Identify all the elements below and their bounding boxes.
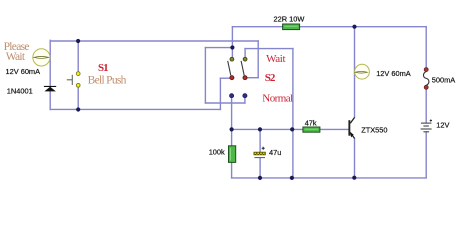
svg-text:47k: 47k	[305, 118, 317, 127]
svg-text:12V 60mA: 12V 60mA	[376, 69, 411, 78]
svg-text:Normal: Normal	[262, 92, 293, 104]
svg-text:Bell Push: Bell Push	[88, 74, 127, 86]
svg-text:S1: S1	[98, 62, 108, 74]
svg-text:500mA: 500mA	[432, 76, 455, 85]
svg-text:Wait: Wait	[266, 53, 285, 65]
svg-text:12V 60mA: 12V 60mA	[6, 67, 41, 76]
svg-text:ZTX550: ZTX550	[361, 126, 387, 135]
svg-text:1N4001: 1N4001	[7, 86, 33, 95]
svg-text:Wait: Wait	[6, 51, 26, 63]
svg-text:47u: 47u	[269, 148, 281, 157]
svg-text:100k: 100k	[209, 148, 225, 157]
svg-text:12V: 12V	[436, 120, 449, 129]
svg-text:22R 10W: 22R 10W	[274, 15, 305, 24]
svg-text:S2: S2	[265, 72, 276, 84]
